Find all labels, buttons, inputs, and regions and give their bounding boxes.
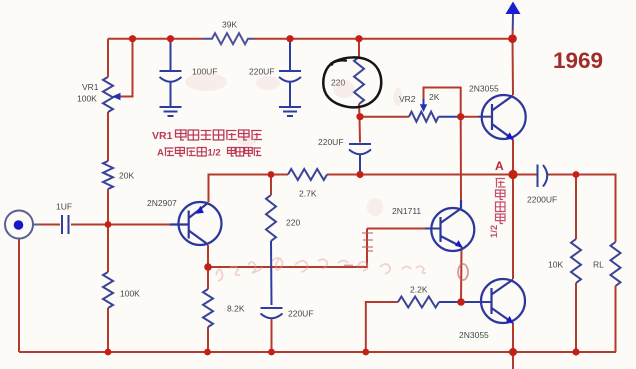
wire 1UF to base node	[71, 224, 108, 226]
svg-text:2N3055: 2N3055	[469, 84, 499, 94]
junction Q4 emitter / bottom rail	[509, 348, 517, 356]
wire 2.2K right lead	[439, 301, 461, 303]
wire base node to Q1	[108, 224, 170, 226]
wire VR1 to 20K	[107, 112, 109, 161]
svg-text:220UF: 220UF	[249, 67, 275, 77]
svg-text:2200UF: 2200UF	[527, 195, 557, 205]
capacitor 220UF mid	[349, 144, 371, 154]
transistor Q3 2N1711	[431, 200, 474, 251]
svg-text:A: A	[495, 159, 504, 173]
wire Q2 collector to +V	[512, 39, 515, 95]
junction 220UF / top rail	[286, 35, 293, 42]
wire left vertical x=108 top	[107, 39, 109, 77]
wire mid row to 2.7K	[271, 174, 288, 176]
watermark scribble	[216, 258, 426, 281]
svg-text:220UF: 220UF	[288, 309, 314, 319]
wire 2.7K to 220UF mid	[327, 174, 360, 176]
wire input node to 100K	[107, 225, 109, 273]
potentiometer VR2	[409, 112, 439, 122]
vertical pink note 1/2 supply voltage	[496, 179, 506, 224]
svg-text:220: 220	[286, 218, 300, 228]
wire RL bottom	[615, 286, 617, 352]
wire node A to 2200UF	[513, 174, 537, 176]
svg-text:20K: 20K	[119, 171, 134, 181]
junction +V supply / top rail	[508, 34, 517, 43]
junction 220-220UF / VR2 left	[356, 113, 363, 120]
resistor 220 circled	[354, 57, 364, 104]
wire 220 to VR2 node	[358, 104, 361, 117]
wire mid row to node A	[360, 174, 513, 176]
ground under 220UF	[279, 107, 301, 116]
svg-text:A: A	[157, 148, 164, 159]
svg-text:2N3055: 2N3055	[459, 330, 489, 340]
resistor 100K	[103, 272, 113, 308]
resistor 2.7K	[288, 169, 327, 180]
svg-text:VR1: VR1	[82, 82, 99, 92]
wire bias vertical VR2 node to Q3 collector	[460, 117, 462, 200]
wire Q3 emitter down to 2.2K node	[460, 247, 463, 302]
resistor 10K	[571, 239, 581, 283]
wire Q2 emitter to node A	[512, 140, 514, 175]
ground under 100UF	[160, 107, 182, 116]
wire top rail	[108, 38, 202, 40]
junction 2.2K / Q4 base	[457, 298, 465, 306]
svg-text:10K: 10K	[548, 260, 563, 270]
capacitor 220UF top	[279, 71, 301, 106]
transistor Q2 2N3055 top	[482, 95, 526, 140]
svg-text:2N2907: 2N2907	[147, 198, 177, 208]
capacitor 1UF	[62, 215, 69, 234]
svg-text:RL: RL	[593, 260, 604, 270]
wire 2200UF to 10K node	[547, 174, 576, 176]
wire Q1 collector node to 8.2K	[207, 267, 209, 289]
wire VR2 node to Q2 base	[461, 116, 478, 118]
capacitor 220UF out	[261, 308, 283, 318]
wire negative feed below rail	[512, 352, 514, 369]
svg-text:100K: 100K	[77, 94, 97, 104]
capacitor 2200UF	[538, 165, 548, 188]
hand-drawn ellipse around 220	[323, 57, 381, 107]
svg-text:2.7K: 2.7K	[299, 189, 317, 199]
junction 220 mid resistor top	[268, 171, 275, 178]
resistor 220 mid	[266, 195, 276, 241]
resistor 39K	[202, 33, 254, 44]
svg-text:100K: 100K	[120, 289, 140, 299]
svg-text:2N1711: 2N1711	[392, 206, 421, 216]
input jack	[5, 211, 33, 239]
resistor 20K	[103, 161, 113, 189]
capacitor 100UF	[160, 71, 182, 106]
wire Q4 emitter to rail	[512, 323, 514, 352]
wire Q1 collector down	[207, 245, 209, 267]
wire 220UF mid cap leads	[359, 117, 362, 143]
junction 220UF out / bottom rail	[268, 349, 275, 356]
transistor Q1 2N2907	[170, 202, 222, 245]
wire 220 top resistor lead	[358, 39, 360, 57]
resistor RL	[611, 242, 621, 286]
wire 20K to input node	[107, 189, 109, 225]
svg-text:8.2K: 8.2K	[227, 304, 245, 314]
wire VR2 row	[360, 116, 410, 118]
svg-text:VR1: VR1	[152, 130, 173, 142]
svg-text:2K: 2K	[429, 92, 440, 102]
svg-text:1969: 1969	[553, 48, 603, 73]
junction 10K top	[573, 171, 580, 178]
wire 10K node to RL	[576, 175, 616, 243]
wire Q1 emitter riser	[209, 175, 272, 203]
wire node A down to Q4 collector	[512, 175, 514, 280]
wire VR1 wiper riser	[120, 39, 133, 97]
wire 220mid resistor to out cap	[270, 175, 272, 196]
junction 10K / bottom rail	[572, 348, 579, 355]
power arrow	[506, 2, 521, 15]
wire 8.2K bottom lead	[207, 327, 209, 352]
junction VR2 wiper / Q2 base	[457, 113, 464, 120]
wire 100K to bottom rail	[107, 308, 109, 352]
svg-text:39K: 39K	[222, 20, 237, 30]
svg-text:1/2: 1/2	[489, 225, 500, 238]
wire 2.2K left lead to rail	[366, 302, 398, 352]
junction 100K / bottom rail	[105, 349, 112, 356]
wire input jack down	[18, 239, 20, 352]
junction Q1 collector / 8.2K	[204, 263, 212, 271]
junction VR1 wiper / top rail	[129, 35, 136, 42]
svg-text:1/2: 1/2	[208, 148, 221, 159]
wire VR2 right lead	[439, 116, 461, 118]
wire input to 1UF	[40, 224, 60, 226]
wire top rail right of 39K	[254, 38, 513, 40]
junction 220 resistor / top rail	[355, 35, 362, 42]
wire 10K top lead	[575, 175, 577, 240]
wire feedback row y=267	[208, 229, 367, 268]
wire 2.2K node to Q4 base	[461, 301, 492, 303]
junction 220UF mid / 2.7K	[356, 171, 363, 178]
resistor 2.2K	[398, 297, 439, 308]
junction 100UF / top rail	[167, 35, 174, 42]
svg-text:2.2K: 2.2K	[410, 285, 428, 295]
junction 2.2K / bottom rail	[362, 349, 369, 356]
node A junction	[508, 170, 517, 179]
junction 8.2K / bottom rail	[204, 349, 211, 356]
potentiometer VR1	[103, 77, 113, 112]
wire VR2 wiper loop	[424, 88, 461, 117]
wire 100UF top lead	[170, 39, 172, 70]
svg-text:1UF: 1UF	[56, 202, 72, 212]
resistor 8.2K	[203, 289, 213, 327]
watermark blobs	[185, 73, 403, 216]
wire out cap to rail	[271, 318, 273, 352]
wire 10K bottom lead	[575, 283, 577, 352]
wire 220UF top lead	[289, 39, 291, 70]
junction input bias node	[105, 221, 112, 228]
svg-text:220UF: 220UF	[318, 137, 344, 147]
wire to Q3 base	[367, 228, 425, 230]
transistor Q4 2N3055 bottom	[481, 279, 525, 323]
wire bottom rail	[19, 351, 616, 353]
